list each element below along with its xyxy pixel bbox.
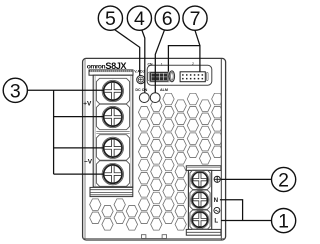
svg-text:2: 2 (192, 62, 194, 66)
connector latch ring (169, 71, 174, 82)
case bottom inner edge (83, 237, 225, 239)
right terminal block body (188, 170, 211, 229)
connector 1 outer frame (149, 72, 169, 82)
connector 1 pin block (151, 73, 168, 82)
right block bottom flange (186, 229, 221, 235)
screw +V1 (102, 80, 123, 101)
callout circle 5 (98, 6, 122, 30)
callout circle 4 (127, 6, 151, 30)
svg-text:7: 7 (190, 8, 201, 30)
screw -V1 (102, 137, 123, 158)
svg-text:2: 2 (278, 170, 289, 192)
callout circle 1 (272, 209, 296, 233)
svg-text:5: 5 (105, 8, 116, 30)
svg-text:1: 1 (278, 211, 289, 233)
svg-text:6: 6 (162, 8, 173, 30)
connector 2 body (180, 72, 205, 82)
svg-text:1: 1 (161, 62, 163, 66)
left block bottom flange (90, 187, 133, 196)
leader line 7 to connectors (168, 30, 200, 71)
callout circle 7 (183, 6, 207, 30)
leader line 4 to DC ON LED (142, 30, 145, 93)
callout circle 2 (272, 167, 296, 191)
connector housing (147, 65, 212, 85)
connector 1 left slot (148, 72, 150, 80)
callout circle 6 (155, 6, 179, 30)
seat earth (190, 170, 210, 189)
leader line 6 to ALM LED (155, 30, 164, 92)
svg-text:4: 4 (134, 8, 145, 30)
left block group divider (96, 131, 129, 133)
ALM LED (150, 93, 160, 103)
DIN rail slider tab (141, 235, 166, 239)
connector 2 right slot (206, 72, 208, 80)
svg-text:CN: CN (148, 62, 153, 66)
svg-text:L: L (214, 218, 218, 225)
left terminal block top flange (89, 70, 133, 75)
svg-text:+V: +V (83, 100, 92, 107)
left block inner walls (94, 75, 96, 187)
connector 2 pins (182, 74, 203, 79)
seat V- a (96, 135, 129, 161)
screw earth (191, 171, 209, 189)
PE earth symbol (214, 176, 220, 182)
screw L (191, 211, 209, 229)
svg-text:S8JX: S8JX (105, 61, 127, 71)
svg-text:DC ON: DC ON (135, 88, 147, 92)
svg-text:ALM: ALM (160, 88, 168, 92)
case right inner edge (220, 59, 222, 240)
V.ADJ trimmer knob (137, 76, 145, 84)
AC symbol (214, 207, 220, 213)
screw +V2 (102, 106, 123, 127)
left terminal block body (93, 75, 133, 187)
leader line 1 to N and L terminals (220, 200, 272, 221)
right terminal block top flange (186, 166, 221, 171)
callout circle 3 (3, 78, 27, 102)
case left inner edge (84, 59, 86, 240)
seat V+ a (96, 78, 129, 104)
seat V- b (96, 161, 129, 187)
screw -V2 (102, 163, 123, 184)
svg-text:3: 3 (10, 80, 21, 102)
screw N (191, 191, 209, 209)
seat N (190, 190, 210, 209)
DC ON LED (139, 93, 149, 103)
svg-text:omron: omron (87, 63, 106, 70)
svg-text:−V: −V (84, 159, 93, 166)
seat V+ b (96, 104, 129, 130)
leader lines 3 to output screws (28, 90, 105, 174)
svg-text:N: N (214, 197, 219, 204)
leader line 5 to V.ADJ (115, 30, 140, 76)
seat L (190, 210, 210, 229)
case outline (83, 58, 226, 240)
leader line 2 to earth terminal (221, 178, 272, 180)
